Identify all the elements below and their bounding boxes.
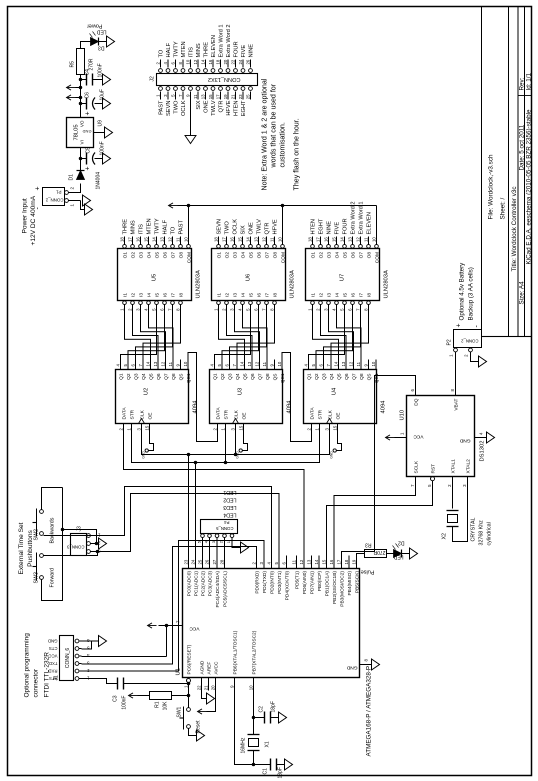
svg-text:17: 17 xyxy=(221,236,226,241)
svg-text:customisation.: customisation. xyxy=(278,122,286,167)
svg-text:STR: STR xyxy=(223,409,229,419)
svg-text:5: 5 xyxy=(427,483,432,486)
svg-text:Q5: Q5 xyxy=(336,373,342,380)
svg-text:I4: I4 xyxy=(240,292,246,296)
svg-text:4: 4 xyxy=(331,307,336,310)
svg-text:O1: O1 xyxy=(216,251,222,258)
svg-text:AREF: AREF xyxy=(206,661,212,674)
svg-text:13: 13 xyxy=(159,236,164,241)
svg-text:2: 2 xyxy=(447,483,452,486)
svg-text:6: 6 xyxy=(281,561,286,564)
svg-text:4: 4 xyxy=(115,363,120,366)
svg-text:Title: Wordclock Controller v: Title: Wordclock Controller v3c xyxy=(511,186,518,271)
svg-text:Q6: Q6 xyxy=(250,373,256,380)
svg-text:C1: C1 xyxy=(262,767,268,774)
svg-text:DATA: DATA xyxy=(121,406,127,419)
svg-text:COM: COM xyxy=(186,252,192,263)
svg-text:PD6(AIN0): PD6(AIN0) xyxy=(302,570,308,594)
svg-text:2: 2 xyxy=(463,353,468,356)
svg-text:6: 6 xyxy=(253,307,258,310)
svg-text:15: 15 xyxy=(331,236,336,241)
svg-text:13: 13 xyxy=(306,559,311,564)
svg-text:GND: GND xyxy=(82,129,91,134)
svg-text:14: 14 xyxy=(245,236,250,241)
svg-text:PD0(RXD): PD0(RXD) xyxy=(254,570,260,593)
svg-text:OE: OE xyxy=(241,412,247,419)
svg-text:2: 2 xyxy=(212,427,217,430)
svg-text:1: 1 xyxy=(86,675,89,680)
svg-text:18: 18 xyxy=(213,236,218,241)
svg-text:2: 2 xyxy=(315,307,320,310)
svg-text:FIVE: FIVE xyxy=(334,221,340,234)
svg-text:I1: I1 xyxy=(216,292,222,296)
svg-text:Q2: Q2 xyxy=(220,373,226,380)
svg-text:I8: I8 xyxy=(272,292,278,296)
svg-text:28: 28 xyxy=(219,559,224,564)
svg-text:12: 12 xyxy=(355,236,360,241)
svg-text:MTEN: MTEN xyxy=(146,218,152,234)
svg-text:12: 12 xyxy=(261,236,266,241)
svg-text:14: 14 xyxy=(313,559,318,564)
svg-text:7: 7 xyxy=(177,93,182,96)
svg-text:2: 2 xyxy=(218,540,223,543)
svg-text:PC2(ADC2): PC2(ADC2) xyxy=(200,570,206,596)
svg-text:15: 15 xyxy=(332,425,337,430)
svg-text:PB2(SS/OC1B): PB2(SS/OC1B) xyxy=(332,570,338,603)
svg-text:100nF: 100nF xyxy=(99,141,105,155)
svg-text:17: 17 xyxy=(315,236,320,241)
svg-text:5: 5 xyxy=(245,307,250,310)
svg-text:EGHT: EGHT xyxy=(241,99,247,115)
svg-text:QS1: QS1 xyxy=(186,373,192,383)
svg-text:2: 2 xyxy=(306,427,311,430)
svg-text:O8: O8 xyxy=(272,251,278,258)
svg-text:-: - xyxy=(473,324,480,327)
svg-text:11: 11 xyxy=(355,361,360,366)
svg-text:LED: LED xyxy=(393,553,403,559)
svg-text:270R: 270R xyxy=(88,58,94,70)
svg-text:10uF: 10uF xyxy=(99,89,105,100)
svg-text:O4: O4 xyxy=(334,251,340,258)
svg-text:1: 1 xyxy=(69,203,74,206)
svg-text:Q6: Q6 xyxy=(344,373,350,380)
svg-text:I3: I3 xyxy=(138,292,144,296)
svg-text:NINE: NINE xyxy=(326,220,332,234)
svg-text:O3: O3 xyxy=(232,251,238,258)
svg-text:O3: O3 xyxy=(326,251,332,258)
svg-text:O2: O2 xyxy=(224,251,230,258)
svg-text:PD3(INT1): PD3(INT1) xyxy=(277,570,283,593)
svg-text:PC6(/RESET): PC6(/RESET) xyxy=(186,644,192,674)
svg-text:Q7: Q7 xyxy=(257,373,263,380)
svg-text:XTAL2: XTAL2 xyxy=(465,458,471,473)
svg-text:11: 11 xyxy=(269,236,274,241)
svg-text:5: 5 xyxy=(216,363,221,366)
svg-text:6: 6 xyxy=(159,307,164,310)
svg-text:I7: I7 xyxy=(170,292,176,296)
svg-text:PC4(ADC4/SDA): PC4(ADC4/SDA) xyxy=(215,570,221,607)
svg-text:I6: I6 xyxy=(162,292,168,296)
svg-text:Extra Word 2: Extra Word 2 xyxy=(226,24,232,57)
svg-text:OCLK: OCLK xyxy=(181,100,187,116)
svg-text:4: 4 xyxy=(209,363,214,366)
svg-text:O8: O8 xyxy=(178,251,184,258)
svg-text:1: 1 xyxy=(399,432,404,435)
svg-text:14: 14 xyxy=(339,236,344,241)
svg-text:LED2: LED2 xyxy=(223,496,236,502)
svg-text:14: 14 xyxy=(145,361,150,366)
svg-text:Q4: Q4 xyxy=(235,373,241,380)
svg-text:3: 3 xyxy=(258,561,263,564)
svg-text:Extra Word 1: Extra Word 1 xyxy=(218,24,224,57)
svg-text:U10: U10 xyxy=(399,409,405,420)
svg-text:O4: O4 xyxy=(146,251,152,258)
svg-text:10: 10 xyxy=(182,361,187,366)
svg-text:AVCC: AVCC xyxy=(213,660,219,674)
svg-text:STR: STR xyxy=(317,409,323,419)
svg-text:+: + xyxy=(84,111,91,115)
svg-text:TWO: TWO xyxy=(173,99,179,113)
svg-text:16: 16 xyxy=(328,559,333,564)
svg-text:3: 3 xyxy=(229,307,234,310)
svg-text:HTEN: HTEN xyxy=(310,219,316,234)
svg-text:Q3: Q3 xyxy=(227,373,233,380)
svg-text:15: 15 xyxy=(207,93,212,98)
svg-text:3: 3 xyxy=(462,483,467,486)
svg-text:O7: O7 xyxy=(358,251,364,258)
svg-text:LED4: LED4 xyxy=(223,511,236,517)
svg-text:PC5(ADC5/SCL): PC5(ADC5/SCL) xyxy=(222,570,228,606)
svg-text:PC1(ADC1): PC1(ADC1) xyxy=(193,570,199,596)
svg-text:6: 6 xyxy=(318,363,323,366)
svg-text:PB1(OC1A): PB1(OC1A) xyxy=(324,570,330,596)
svg-text:4: 4 xyxy=(478,432,483,435)
svg-text:Rev:: Rev: xyxy=(518,77,525,90)
svg-text:CONN_3: CONN_3 xyxy=(66,544,84,549)
svg-text:CONN_13X2: CONN_13X2 xyxy=(207,76,240,82)
svg-text:HALF: HALF xyxy=(162,219,168,234)
svg-text:Q1: Q1 xyxy=(306,373,312,380)
svg-text:VCC: VCC xyxy=(188,625,199,631)
svg-text:KiCad E.D.A. eeschema (2010-0: KiCad E.D.A. eeschema (2010-05-05 BZR 23… xyxy=(525,108,532,264)
svg-text:I6: I6 xyxy=(350,292,356,296)
svg-text:ELEVEN: ELEVEN xyxy=(211,35,217,57)
svg-text:OE: OE xyxy=(147,412,153,419)
svg-text:QTR: QTR xyxy=(264,222,270,234)
svg-text:5: 5 xyxy=(170,93,175,96)
svg-text:I2: I2 xyxy=(130,292,136,296)
svg-text:I3: I3 xyxy=(232,292,238,296)
svg-text:13: 13 xyxy=(152,361,157,366)
svg-text:DATA: DATA xyxy=(215,406,221,419)
svg-text:U4: U4 xyxy=(331,387,337,395)
svg-text:HFVE: HFVE xyxy=(226,100,232,115)
svg-text:27: 27 xyxy=(211,559,216,564)
svg-text:HTEN: HTEN xyxy=(233,100,239,115)
svg-text:Q2: Q2 xyxy=(126,373,132,380)
svg-text:CTS: CTS xyxy=(48,646,57,651)
svg-text:7: 7 xyxy=(355,307,360,310)
svg-text:13: 13 xyxy=(200,93,205,98)
svg-text:7: 7 xyxy=(175,620,180,623)
svg-text:Q8: Q8 xyxy=(171,373,177,380)
svg-text:20: 20 xyxy=(210,684,215,689)
svg-text:18: 18 xyxy=(307,236,312,241)
svg-text:4: 4 xyxy=(162,61,167,64)
svg-text:1: 1 xyxy=(448,353,453,356)
svg-text:9: 9 xyxy=(363,363,368,366)
svg-text:11: 11 xyxy=(363,236,368,241)
svg-text:ATMEGA168-P / ATMEGA328-P: ATMEGA168-P / ATMEGA328-P xyxy=(365,665,372,756)
svg-text:I5: I5 xyxy=(248,292,254,296)
svg-text:4: 4 xyxy=(266,561,271,564)
svg-text:PAST: PAST xyxy=(158,99,164,114)
svg-text:11: 11 xyxy=(192,93,197,98)
svg-text:I2: I2 xyxy=(224,292,230,296)
svg-text:3: 3 xyxy=(211,540,216,543)
svg-text:Q4: Q4 xyxy=(141,373,147,380)
svg-text:1: 1 xyxy=(213,307,218,310)
svg-text:6: 6 xyxy=(224,363,229,366)
svg-text:C3: C3 xyxy=(112,695,118,702)
svg-text:PB7(XTAL2/TOSC2): PB7(XTAL2/TOSC2) xyxy=(251,630,257,674)
svg-text:TWO: TWO xyxy=(224,220,230,234)
svg-text:Q7: Q7 xyxy=(351,373,357,380)
svg-text:18: 18 xyxy=(343,559,348,564)
svg-text:SW2: SW2 xyxy=(33,528,39,540)
svg-text:Q5: Q5 xyxy=(242,373,248,380)
svg-text:U2: U2 xyxy=(143,387,149,394)
svg-text:QS: QS xyxy=(178,373,184,380)
svg-text:I5: I5 xyxy=(154,292,160,296)
svg-text:18: 18 xyxy=(119,236,124,241)
svg-text:8: 8 xyxy=(450,388,455,391)
svg-text:11: 11 xyxy=(261,361,266,366)
svg-text:6: 6 xyxy=(86,638,89,643)
svg-text:26: 26 xyxy=(204,559,209,564)
svg-text:21: 21 xyxy=(203,684,208,689)
svg-text:O5: O5 xyxy=(342,251,348,258)
svg-text:13: 13 xyxy=(340,361,345,366)
svg-text:23: 23 xyxy=(237,93,242,98)
svg-text:OCLK: OCLK xyxy=(232,218,238,234)
svg-text:O2: O2 xyxy=(318,251,324,258)
svg-text:VI: VI xyxy=(79,140,84,144)
svg-text:ITIS: ITIS xyxy=(138,223,144,234)
svg-text:4: 4 xyxy=(203,540,208,543)
svg-text:Pushbuttons: Pushbuttons xyxy=(27,529,34,566)
svg-text:Reset: Reset xyxy=(195,719,201,733)
svg-text:10: 10 xyxy=(277,236,282,241)
svg-text:24: 24 xyxy=(190,559,195,564)
svg-text:7: 7 xyxy=(231,363,236,366)
svg-text:1: 1 xyxy=(155,93,160,96)
svg-text:CONN_2: CONN_2 xyxy=(45,197,63,202)
svg-text:PB0(ICP): PB0(ICP) xyxy=(317,570,323,591)
svg-text:Q1: Q1 xyxy=(118,373,124,380)
svg-text:10: 10 xyxy=(248,684,253,689)
svg-text:O5: O5 xyxy=(154,251,160,258)
svg-text:O5: O5 xyxy=(248,251,254,258)
svg-text:O2: O2 xyxy=(130,251,136,258)
svg-text:EGHT: EGHT xyxy=(318,218,324,234)
svg-text:I8: I8 xyxy=(178,292,184,296)
svg-text:I4: I4 xyxy=(146,292,152,296)
svg-text:FOUR: FOUR xyxy=(233,41,239,57)
svg-text:TWLV: TWLV xyxy=(256,218,262,234)
svg-text:6: 6 xyxy=(410,388,415,391)
svg-text:They flash on the hour.: They flash on the hour. xyxy=(292,118,300,190)
svg-text:PD2(INT0): PD2(INT0) xyxy=(269,570,275,593)
svg-text:Q4: Q4 xyxy=(329,373,335,380)
svg-text:TO: TO xyxy=(170,226,176,234)
svg-text:3: 3 xyxy=(324,427,329,430)
svg-text:1: 1 xyxy=(226,540,231,543)
svg-text:O6: O6 xyxy=(256,251,262,258)
svg-text:23: 23 xyxy=(183,559,188,564)
svg-text:10: 10 xyxy=(370,361,375,366)
svg-text:25: 25 xyxy=(245,93,250,98)
svg-text:18pF: 18pF xyxy=(270,701,276,712)
svg-text:External Time Set: External Time Set xyxy=(18,522,25,574)
svg-text:PB5(SCK): PB5(SCK) xyxy=(354,570,360,593)
svg-text:1: 1 xyxy=(314,427,319,430)
svg-text:R5: R5 xyxy=(69,60,75,67)
svg-text:QS: QS xyxy=(272,373,278,380)
svg-text:O4: O4 xyxy=(240,251,246,258)
svg-text:THRE: THRE xyxy=(122,218,128,234)
svg-text:ONE: ONE xyxy=(248,221,254,234)
svg-text:32768 Khz: 32768 Khz xyxy=(478,519,484,545)
svg-text:CONN_6: CONN_6 xyxy=(65,647,71,668)
svg-text:CONN_5: CONN_5 xyxy=(215,526,233,531)
svg-text:CLK: CLK xyxy=(327,409,333,419)
svg-text:MINS: MINS xyxy=(130,220,136,234)
svg-text:10: 10 xyxy=(185,59,190,64)
svg-text:I1: I1 xyxy=(122,292,128,296)
svg-text:15: 15 xyxy=(237,236,242,241)
svg-text:J2: J2 xyxy=(149,76,155,82)
svg-text:PD4(XCK/T0): PD4(XCK/T0) xyxy=(284,570,290,600)
svg-text:NINE: NINE xyxy=(248,43,254,57)
svg-text:Optional programming: Optional programming xyxy=(23,632,30,697)
svg-text:CLK: CLK xyxy=(233,409,239,419)
svg-text:1: 1 xyxy=(183,684,188,687)
svg-text:D1: D1 xyxy=(68,173,74,180)
svg-text:+: + xyxy=(84,166,91,170)
svg-text:STR: STR xyxy=(129,409,135,419)
svg-text:10K: 10K xyxy=(162,700,168,710)
svg-text:LED1: LED1 xyxy=(223,489,236,495)
svg-text:3: 3 xyxy=(162,93,167,96)
svg-text:5: 5 xyxy=(339,307,344,310)
svg-text:11: 11 xyxy=(291,559,296,564)
svg-text:MTEN: MTEN xyxy=(181,41,187,57)
svg-text:PD7(AIN1): PD7(AIN1) xyxy=(309,570,315,594)
svg-text:Power: Power xyxy=(86,22,102,28)
svg-text:O8: O8 xyxy=(366,251,372,258)
svg-text:6: 6 xyxy=(130,363,135,366)
svg-text:13: 13 xyxy=(347,236,352,241)
svg-text:7: 7 xyxy=(261,307,266,310)
svg-text:O6: O6 xyxy=(350,251,356,258)
svg-text:PC3(ADC3): PC3(ADC3) xyxy=(207,570,213,596)
svg-text:6: 6 xyxy=(170,61,175,64)
svg-text:8: 8 xyxy=(363,307,368,310)
svg-text:Q1: Q1 xyxy=(212,373,218,380)
svg-text:-: - xyxy=(34,206,41,209)
svg-text:Optional 4.5v Battery: Optional 4.5v Battery xyxy=(458,261,465,320)
svg-text:PB6(XTAL1/TOSC1): PB6(XTAL1/TOSC1) xyxy=(232,630,238,674)
svg-text:O1: O1 xyxy=(310,251,316,258)
svg-text:25: 25 xyxy=(197,559,202,564)
svg-text:COM: COM xyxy=(374,252,380,263)
svg-text:7: 7 xyxy=(167,307,172,310)
svg-text:11: 11 xyxy=(175,236,180,241)
svg-text:78L05: 78L05 xyxy=(73,124,79,140)
svg-text:Forward: Forward xyxy=(49,568,55,587)
svg-text:PAST: PAST xyxy=(178,219,184,234)
svg-text:FOUR: FOUR xyxy=(342,218,348,234)
svg-text:2: 2 xyxy=(69,186,74,189)
svg-text:PC0(ADC0): PC0(ADC0) xyxy=(186,570,192,596)
svg-text:Q2: Q2 xyxy=(314,373,320,380)
svg-text:Sheet: /: Sheet: / xyxy=(499,197,506,219)
svg-text:O7: O7 xyxy=(264,251,270,258)
svg-text:2: 2 xyxy=(118,427,123,430)
svg-text:Id: 1/1: Id: 1/1 xyxy=(525,72,532,90)
svg-text:14: 14 xyxy=(239,361,244,366)
svg-text:1: 1 xyxy=(126,427,131,430)
svg-text:10: 10 xyxy=(183,236,188,241)
svg-text:13: 13 xyxy=(246,361,251,366)
svg-text:PB3(MOSI/OC2): PB3(MOSI/OC2) xyxy=(339,570,345,606)
svg-text:7: 7 xyxy=(410,483,415,486)
svg-text:26: 26 xyxy=(245,59,250,64)
svg-text:10: 10 xyxy=(371,236,376,241)
svg-text:TXD: TXD xyxy=(48,661,57,666)
svg-text:I6: I6 xyxy=(256,292,262,296)
svg-text:Q7: Q7 xyxy=(163,373,169,380)
svg-text:14: 14 xyxy=(333,361,338,366)
svg-text:11: 11 xyxy=(167,361,172,366)
svg-text:D3: D3 xyxy=(97,44,104,50)
svg-text:5: 5 xyxy=(273,561,278,564)
svg-text:22: 22 xyxy=(196,684,201,689)
svg-text:12: 12 xyxy=(298,559,303,564)
svg-text:17: 17 xyxy=(127,236,132,241)
svg-text:100nF: 100nF xyxy=(121,695,127,709)
svg-text:Power Input: Power Input xyxy=(21,198,28,233)
svg-text:18pF: 18pF xyxy=(277,767,283,778)
svg-text:VCC: VCC xyxy=(412,433,423,439)
svg-text:10: 10 xyxy=(276,361,281,366)
svg-text:15: 15 xyxy=(321,559,326,564)
svg-text:Note: Extra Word 1 & 2 are o: Note: Extra Word 1 & 2 are optional xyxy=(260,78,268,190)
svg-text:I3: I3 xyxy=(326,292,332,296)
svg-text:Q3: Q3 xyxy=(133,373,139,380)
svg-text:I8: I8 xyxy=(366,292,372,296)
svg-text:TO: TO xyxy=(158,49,164,57)
svg-text:Backwards: Backwards xyxy=(49,517,55,543)
svg-text:17: 17 xyxy=(336,559,341,564)
svg-text:24: 24 xyxy=(237,59,242,64)
svg-text:4: 4 xyxy=(303,363,308,366)
svg-text:15: 15 xyxy=(144,425,149,430)
svg-text:Q5: Q5 xyxy=(148,373,154,380)
svg-text:ULN2803A: ULN2803A xyxy=(195,270,201,298)
svg-text:19: 19 xyxy=(351,559,356,564)
